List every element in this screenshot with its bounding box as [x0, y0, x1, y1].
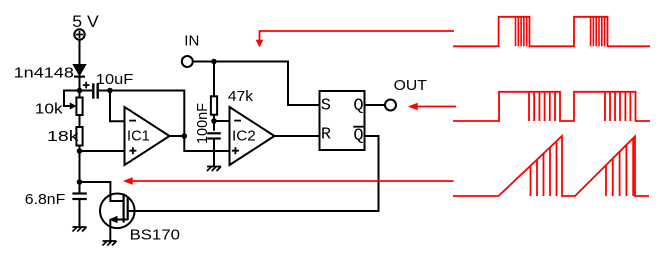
wire source to ground [109, 220, 111, 242]
svg-text:S: S [321, 96, 331, 115]
svg-text:100nF: 100nF [194, 103, 211, 144]
svg-text:IC1: IC1 [127, 127, 150, 144]
resistor R3 47k body [211, 96, 217, 114]
wire node E to IC2 non-inverting input [184, 136, 229, 151]
wire feedback node B to IC1 output [110, 91, 184, 137]
ground under C3 [207, 167, 221, 172]
wire IC1 output to node E [170, 135, 185, 137]
op-amp IC2 triangle [230, 107, 275, 165]
svg-text:IN: IN [184, 32, 199, 49]
output port OUT circle [385, 100, 396, 111]
node F junction on IN wire [211, 59, 217, 65]
svg-text:1n4148: 1n4148 [14, 65, 74, 82]
wire R2 down rail to capacitor C2 [79, 146, 81, 195]
transistor Q1 BS170 body circle [100, 194, 135, 229]
wire 5V to diode [79, 40, 81, 65]
waveform IN hatch burst 1 [516, 17, 527, 47]
svg-text:OUT: OUT [394, 77, 427, 94]
node D junction [77, 179, 83, 185]
op-amp IC1 triangle [125, 107, 170, 165]
wire IC2 output to R input [275, 135, 320, 137]
input port IN circle [182, 56, 193, 67]
wire drain of Q1 to Q-bar of latch [128, 136, 379, 211]
red pointer arrow to node D sawtooth [123, 177, 454, 185]
wire IN to S input corner [193, 62, 320, 106]
wire node D to gate of Q1 [80, 182, 123, 201]
wire node C to IC1 non-inverting input [80, 150, 125, 152]
svg-text:BS170: BS170 [130, 227, 180, 244]
svg-text:5 V: 5 V [72, 12, 99, 31]
svg-text:47k: 47k [228, 88, 254, 105]
waveform IN pulse train [453, 17, 650, 47]
diode D1 1n4148 [73, 65, 86, 77]
IC2 plus sign [232, 147, 239, 154]
svg-text:Q: Q [353, 126, 363, 145]
ground under Q1 source [103, 241, 117, 246]
transistor Q1 gate bar [122, 194, 124, 223]
power supply +5V terminal [74, 29, 84, 39]
waveform sawtooth hatch 2 [606, 138, 633, 196]
svg-text:R: R [321, 126, 331, 145]
wire C2 to ground [79, 199, 81, 227]
wire pot to resistor R2 [79, 115, 81, 127]
waveform OUT hatch burst 2 [605, 92, 630, 121]
wire node F to resistor R3 [213, 62, 215, 97]
potentiometer R1 10k body [76, 98, 82, 116]
node B junction [107, 88, 113, 94]
node G junction [211, 118, 217, 124]
wire C1 to node B [99, 90, 112, 92]
waveform sawtooth hatch 1 [531, 141, 557, 196]
svg-text:Q: Q [353, 96, 363, 115]
node C junction [77, 148, 83, 154]
wire potentiometer wiper loop [64, 91, 80, 107]
wire diode to node A [79, 77, 81, 98]
red pointer arrow to IN wire [260, 31, 455, 41]
plus sign of C1 [83, 82, 90, 89]
svg-text:IC2: IC2 [232, 128, 256, 145]
svg-text:10uF: 10uF [96, 71, 134, 88]
red pointer arrow to OUT port [408, 103, 456, 111]
wire C3 to ground [213, 139, 215, 167]
svg-text:10k: 10k [35, 101, 63, 118]
node E junction [182, 133, 188, 139]
IC1 minus sign [129, 120, 136, 122]
wire Q output to OUT [365, 104, 386, 106]
resistor R2 18k body [76, 127, 82, 146]
SR latch U1 box [320, 91, 365, 150]
wire node A to capacitor C1 [80, 90, 93, 92]
capacitor C3 100nF [207, 133, 221, 138]
wire R3 to node G [213, 115, 215, 121]
potentiometer wiper arrow [70, 102, 77, 109]
IC1 plus sign [129, 147, 136, 154]
transistor Q1 channel bar [127, 197, 129, 221]
IC2 minus sign [234, 120, 241, 122]
svg-text:18k: 18k [47, 128, 79, 145]
wire node G to IC2 inverting input [214, 120, 230, 122]
capacitor C1 10uF polarized [93, 83, 97, 98]
ground under C2 [73, 227, 87, 232]
latch pin Q-bar [353, 126, 364, 145]
wire node B to IC1 inverting input [110, 91, 125, 122]
waveform OUT square wave [453, 92, 650, 121]
waveform sawtooth ramp [453, 136, 649, 196]
svg-text:6.8nF: 6.8nF [25, 191, 66, 208]
wire node G to capacitor C3 [213, 121, 215, 131]
transistor Q1 source arrow [109, 216, 128, 224]
waveform OUT hatch burst 1 [529, 92, 555, 121]
capacitor C2 6.8nF [72, 194, 86, 200]
node A junction [77, 88, 83, 94]
waveform IN hatch burst 2 [591, 17, 605, 47]
